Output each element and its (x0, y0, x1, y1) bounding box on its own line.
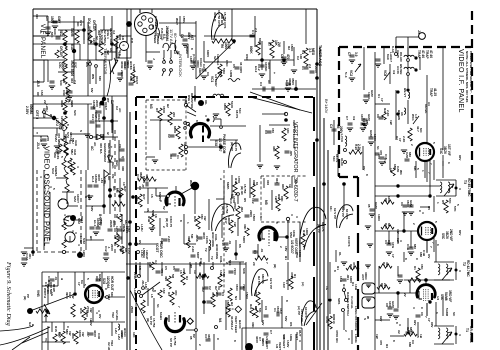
svg-text:180V: 180V (85, 310, 89, 317)
svg-text:6: 6 (436, 244, 440, 246)
svg-text:1/2W: 1/2W (229, 70, 233, 77)
svg-text:6CGT: 6CGT (155, 243, 159, 253)
svg-text:3: 3 (295, 216, 299, 218)
svg-text:J3-4: J3-4 (36, 142, 40, 149)
svg-text:(B): (B) (273, 264, 277, 268)
svg-text:MC: MC (110, 292, 114, 298)
svg-text:200V: 200V (120, 70, 124, 78)
svg-text:1250GA: 1250GA (216, 54, 220, 66)
svg-text:100E: 100E (292, 230, 296, 237)
svg-text:1W: 1W (375, 334, 379, 339)
svg-text:IZ: IZ (106, 132, 110, 135)
svg-text:1/2W: 1/2W (132, 64, 136, 71)
svg-text:SAN6: SAN6 (70, 28, 74, 37)
svg-text:C5: C5 (172, 266, 176, 270)
svg-text:680: 680 (419, 252, 423, 257)
svg-text:SW1: SW1 (337, 298, 341, 305)
svg-text:GN: GN (45, 16, 49, 21)
svg-text:(B) PP: (B) PP (230, 142, 234, 151)
svg-text:NOTE: ALL SYMBOL NOS. ON THIS: NOTE: ALL SYMBOL NOS. ON THIS (465, 51, 469, 102)
svg-text:T1: T1 (465, 328, 469, 332)
svg-text:3.9: 3.9 (352, 116, 356, 121)
svg-text:VC8: VC8 (383, 70, 387, 76)
svg-text:3.4: 3.4 (112, 30, 116, 35)
svg-text:5M: 5M (190, 234, 194, 239)
svg-text:33K: 33K (251, 322, 255, 328)
svg-text:OSC: OSC (225, 60, 229, 67)
svg-text:OUT: OUT (298, 330, 302, 337)
svg-text:C2: C2 (208, 286, 212, 290)
svg-text:+: + (272, 72, 276, 74)
svg-text:ON: ON (35, 14, 39, 19)
svg-text:600V: 600V (206, 50, 210, 58)
svg-text:8: 8 (392, 340, 396, 342)
svg-text:.003: .003 (169, 153, 173, 159)
svg-text:6AW8A: 6AW8A (54, 166, 58, 177)
svg-text:C9: C9 (253, 250, 257, 254)
svg-text:5: 5 (46, 174, 50, 176)
svg-text:2: 2 (279, 246, 283, 248)
svg-text:.001: .001 (28, 253, 32, 259)
svg-text:801W: 801W (52, 284, 56, 292)
svg-text:R1: R1 (293, 274, 297, 278)
svg-text:60 CPS: 60 CPS (345, 209, 349, 219)
svg-text:600MA: 600MA (29, 104, 33, 115)
svg-text:120MF: 120MF (115, 226, 119, 236)
svg-text:HOR RING: HOR RING (215, 244, 219, 260)
svg-text:C2: C2 (167, 134, 171, 138)
svg-text:COIL: COIL (219, 256, 223, 263)
svg-text:BN-VT: BN-VT (403, 88, 407, 97)
svg-text:MMP.: MMP. (226, 182, 230, 190)
svg-text:R1B: R1B (147, 216, 151, 223)
svg-text:R5: R5 (243, 198, 247, 202)
svg-text:1S0: 1S0 (162, 288, 166, 294)
svg-text:2.2K: 2.2K (121, 247, 125, 254)
svg-text:W: W (366, 316, 370, 319)
svg-text:60∼: 60∼ (173, 33, 178, 41)
svg-text:8S: 8S (238, 244, 242, 248)
svg-text:L7CO: L7CO (340, 134, 344, 143)
svg-text:R2 5%: R2 5% (257, 276, 261, 285)
svg-text:680: 680 (413, 244, 417, 249)
svg-text:WAV: WAV (189, 180, 193, 188)
svg-text:R1: R1 (413, 266, 417, 270)
svg-text:1000: 1000 (373, 134, 377, 141)
svg-text:(1½HOT: (1½HOT (192, 54, 196, 66)
svg-text:680: 680 (408, 342, 412, 347)
svg-text:BN: BN (89, 236, 93, 240)
svg-text:4: 4 (39, 176, 43, 178)
svg-text:33 400V: 33 400V (239, 62, 243, 73)
svg-text:1500: 1500 (235, 284, 239, 291)
svg-text:GMV: GMV (374, 202, 378, 210)
svg-text:J7: J7 (141, 184, 145, 188)
svg-text:GMV: GMV (57, 16, 61, 24)
svg-text:8: 8 (333, 270, 337, 272)
svg-text:C7: C7 (345, 116, 349, 120)
svg-text:1000: 1000 (65, 88, 69, 95)
svg-text:1R4: 1R4 (126, 60, 130, 66)
svg-text:GERMANIUM: GERMANIUM (103, 143, 107, 162)
svg-text:YR2: YR2 (111, 312, 115, 318)
svg-text:1W: 1W (389, 120, 393, 125)
svg-text:500V: 500V (242, 236, 246, 244)
svg-text:90K: 90K (281, 184, 285, 190)
svg-text:C7: C7 (389, 58, 393, 62)
svg-text:PP: PP (26, 294, 30, 298)
svg-text:OR-GR: OR-GR (59, 46, 63, 57)
svg-text:CN: CN (111, 174, 115, 178)
svg-text:T2: T2 (210, 256, 214, 260)
svg-text:W: W (49, 114, 53, 117)
svg-text:.01: .01 (54, 276, 58, 281)
svg-text:X2: X2 (397, 330, 401, 334)
svg-text:L10U: L10U (133, 288, 137, 296)
svg-text:5AM8: 5AM8 (444, 292, 448, 301)
svg-text:INTERLOCK: INTERLOCK (178, 54, 183, 77)
svg-text:1KB: 1KB (339, 276, 343, 283)
svg-text:REC.: REC. (111, 162, 115, 169)
svg-text:C15: C15 (383, 158, 387, 164)
svg-text:.01: .01 (260, 248, 264, 253)
svg-text:RD 45.75MC: RD 45.75MC (467, 178, 471, 197)
svg-text:MEG: MEG (311, 48, 315, 56)
svg-text:1KB: 1KB (354, 284, 358, 291)
svg-text:10%: 10% (391, 242, 395, 248)
svg-text:E2: E2 (99, 134, 103, 138)
svg-text:6: 6 (447, 162, 451, 164)
svg-text:N2: N2 (230, 194, 234, 198)
svg-text:1Y: 1Y (391, 254, 395, 258)
svg-text:15,750: 15,750 (225, 204, 229, 214)
svg-text:3S: 3S (146, 208, 150, 212)
svg-text:7: 7 (267, 226, 271, 228)
svg-text:8: 8 (66, 124, 70, 126)
svg-text:2: 2 (344, 330, 348, 332)
svg-text:L2U: L2U (114, 328, 118, 335)
svg-text:270: 270 (46, 136, 50, 141)
svg-text:330: 330 (385, 262, 389, 267)
svg-text:470: 470 (379, 340, 383, 345)
svg-text:.002: .002 (240, 206, 244, 212)
svg-text:R1: R1 (155, 108, 159, 112)
svg-text:1Y: 1Y (380, 98, 384, 102)
svg-text:Y1: Y1 (44, 338, 48, 342)
svg-text:C4: C4 (259, 82, 263, 86)
svg-text:1ST VIF: 1ST VIF (447, 144, 451, 156)
svg-text:VERT INTEGRATOR: VERT INTEGRATOR (292, 120, 296, 149)
svg-text:ONLY: ONLY (135, 76, 139, 84)
svg-text:2ND VIF: 2ND VIF (449, 229, 453, 241)
svg-text:.0056: .0056 (195, 234, 199, 242)
svg-text:680: 680 (409, 327, 413, 332)
svg-text:C1: C1 (176, 155, 180, 159)
svg-text:R2D: R2D (193, 216, 197, 223)
svg-text:68 PS: 68 PS (335, 154, 339, 162)
svg-text:C8: C8 (376, 114, 380, 118)
svg-text:50Ω: 50Ω (222, 68, 226, 74)
svg-text:R16: R16 (79, 308, 83, 314)
svg-text:3: 3 (74, 232, 78, 234)
svg-text:S1C: S1C (118, 50, 122, 57)
svg-text:6AB4: 6AB4 (159, 312, 163, 320)
svg-text:E3-2: E3-2 (254, 66, 258, 73)
svg-text:H: H (60, 278, 64, 280)
svg-text:R27: R27 (123, 186, 127, 192)
svg-text:T2: T2 (462, 262, 466, 266)
svg-text:680K: 680K (173, 126, 177, 134)
svg-text:60V PP: 60V PP (341, 207, 345, 217)
svg-text:C9: C9 (264, 306, 268, 310)
svg-text:60 CPS: 60 CPS (347, 236, 351, 247)
svg-text:(A): (A) (301, 282, 305, 286)
svg-text:5AM8: 5AM8 (445, 308, 449, 316)
svg-text:47K: 47K (174, 290, 178, 296)
svg-text:OC: OC (211, 262, 215, 267)
svg-text:4: 4 (77, 244, 81, 246)
svg-text:TRAP: TRAP (429, 88, 433, 98)
svg-text:1G: 1G (325, 286, 329, 291)
svg-text:YR2: YR2 (110, 340, 114, 346)
svg-text:3AU: 3AU (73, 149, 77, 155)
svg-text:W4: W4 (399, 170, 403, 175)
svg-text:WHT: WHT (175, 18, 179, 25)
svg-text:1S: 1S (150, 194, 154, 198)
svg-text:VERT FEED: VERT FEED (234, 316, 238, 334)
svg-text:470: 470 (160, 268, 164, 273)
svg-text:15K: 15K (420, 264, 424, 270)
svg-text:3.9: 3.9 (392, 70, 396, 75)
svg-text:R6: R6 (220, 44, 224, 48)
svg-text:X4: X4 (427, 102, 431, 106)
svg-text:XIC: XIC (53, 30, 57, 36)
svg-text:1G: 1G (50, 292, 54, 297)
svg-text:WN: WN (91, 74, 95, 79)
svg-text:D1: D1 (342, 284, 346, 288)
svg-text:170K: 170K (237, 176, 241, 184)
svg-text:180K: 180K (223, 103, 227, 111)
svg-text:7: 7 (429, 246, 433, 248)
svg-text:60CPS: 60CPS (321, 222, 325, 232)
svg-text:3: 3 (60, 198, 64, 200)
svg-text:C3U: C3U (97, 333, 101, 339)
svg-text:8: 8 (365, 174, 369, 176)
svg-text:47.40: 47.40 (421, 50, 425, 58)
svg-text:MN: MN (98, 76, 102, 81)
svg-text:60∼: 60∼ (329, 206, 333, 212)
svg-text:390: 390 (164, 276, 168, 281)
svg-text:8: 8 (233, 340, 237, 342)
svg-text:Figure 9. Schematic Diag: Figure 9. Schematic Diag (5, 261, 12, 326)
svg-text:S4Q: S4Q (184, 97, 188, 104)
svg-text:15,750: 15,750 (173, 336, 177, 346)
svg-text:X1C: X1C (70, 44, 74, 51)
svg-text:J.1: J.1 (154, 22, 158, 27)
svg-text:S5C: S5C (441, 233, 445, 240)
svg-text:OC: OC (109, 48, 113, 53)
svg-text:1/2 6CG7: 1/2 6CG7 (290, 240, 294, 254)
svg-text:5V: 5V (162, 206, 166, 210)
svg-text:100CT: 100CT (76, 194, 80, 203)
svg-text:30-6503-2: 30-6503-2 (230, 316, 234, 330)
svg-text:C7: C7 (347, 52, 351, 56)
svg-text:C9: C9 (400, 202, 404, 206)
svg-text:1C2: 1C2 (251, 198, 255, 204)
svg-text:33K: 33K (272, 146, 276, 152)
svg-text:BACK: BACK (238, 320, 242, 329)
svg-text:0.5/0.75: 0.5/0.75 (169, 216, 173, 227)
svg-text:N5: N5 (294, 180, 298, 184)
svg-text:3RD IF: 3RD IF (213, 12, 217, 22)
svg-text:L26U: L26U (45, 104, 49, 112)
svg-text:VERT: VERT (278, 342, 282, 350)
svg-text:470: 470 (286, 54, 290, 60)
svg-text:400V: 400V (145, 174, 149, 181)
svg-text:155V: 155V (182, 16, 186, 24)
svg-text:C2B: C2B (160, 238, 164, 245)
svg-text:L13U: L13U (144, 282, 148, 290)
svg-text:OR-GR: OR-GR (92, 20, 96, 31)
svg-text:7200: 7200 (233, 268, 237, 275)
svg-text:J3-5: J3-5 (36, 80, 40, 87)
svg-text:C1: C1 (301, 66, 305, 70)
svg-text:200V: 200V (110, 244, 114, 251)
svg-text:400V: 400V (261, 339, 265, 347)
svg-text:150K: 150K (162, 106, 166, 114)
svg-text:R5: R5 (441, 200, 445, 204)
svg-text:51C: 51C (59, 30, 63, 37)
svg-text:1Y: 1Y (398, 138, 402, 142)
svg-text:C3: C3 (264, 130, 268, 134)
svg-text:RD 42.7MC: RD 42.7MC (466, 260, 470, 277)
svg-text:N5: N5 (264, 200, 268, 205)
svg-text:9: 9 (415, 258, 419, 260)
svg-text:8: 8 (179, 220, 183, 222)
svg-text:LONG: LONG (354, 334, 358, 343)
svg-text:AC: AC (90, 146, 94, 151)
svg-text:X6: X6 (400, 112, 404, 116)
svg-text:2V: 2V (403, 293, 407, 297)
svg-text:15,750: 15,750 (152, 318, 156, 328)
svg-text:300V: 300V (99, 218, 103, 225)
svg-text:R27: R27 (142, 194, 146, 200)
svg-text:1500: 1500 (252, 214, 256, 221)
svg-text:R21: R21 (249, 304, 253, 310)
svg-text:PHASE COM: PHASE COM (222, 134, 226, 154)
svg-text:.01: .01 (228, 240, 232, 245)
svg-text:12BH7: 12BH7 (145, 250, 149, 260)
svg-text:470K: 470K (352, 262, 356, 270)
svg-text:004: 004 (275, 178, 279, 183)
svg-text:41.25: 41.25 (433, 88, 437, 96)
svg-text:2.2K: 2.2K (386, 110, 390, 117)
svg-text:1W: 1W (203, 216, 207, 221)
svg-text:2: 2 (162, 226, 166, 228)
svg-text:470: 470 (379, 150, 383, 155)
svg-text:R8B: R8B (47, 280, 51, 287)
svg-text:200: 200 (172, 112, 176, 117)
svg-text:C20: C20 (148, 262, 152, 268)
svg-text:C4U: C4U (39, 136, 43, 143)
svg-text:3: 3 (458, 270, 462, 272)
svg-text:OL: OL (338, 252, 342, 256)
svg-text:5: 5 (456, 204, 460, 206)
svg-text:2.35V: 2.35V (25, 106, 29, 115)
svg-text:1200: 1200 (82, 250, 86, 257)
svg-text:PANEL USE THE SUFFIX “C”.: PANEL USE THE SUFFIX “C”. (469, 51, 473, 94)
svg-text:50K: 50K (228, 260, 232, 266)
svg-text:B+140V: B+140V (324, 99, 329, 114)
svg-text:4MV: 4MV (87, 194, 91, 201)
svg-text:1/2 9BR7: 1/2 9BR7 (214, 74, 218, 87)
svg-text:1: 1 (421, 170, 425, 172)
svg-text:68: 68 (387, 223, 391, 227)
svg-text:1W: 1W (81, 332, 85, 337)
svg-text:GR 43.6MC: GR 43.6MC (469, 326, 473, 344)
svg-text:47.40: 47.40 (429, 50, 433, 58)
svg-text:470K: 470K (325, 316, 329, 324)
svg-text:300V: 300V (125, 226, 129, 234)
svg-text:1000: 1000 (377, 214, 381, 221)
svg-text:300Ω: 300Ω (364, 272, 368, 280)
svg-text:680: 680 (408, 152, 412, 157)
svg-text:57K: 57K (448, 198, 452, 204)
svg-text:80V: 80V (458, 230, 462, 235)
svg-text:L8: L8 (150, 294, 154, 298)
svg-text:S0K: S0K (242, 268, 246, 275)
svg-text:68CPS: 68CPS (261, 274, 265, 284)
svg-text:3: 3 (398, 324, 402, 326)
svg-text:+: + (109, 146, 113, 148)
svg-text:3RD VIF: 3RD VIF (448, 290, 452, 302)
svg-text:0.5/0.75: 0.5/0.75 (234, 140, 238, 151)
svg-text:R3: R3 (167, 292, 171, 296)
svg-text:1000: 1000 (387, 196, 391, 203)
svg-text:.005: .005 (289, 150, 293, 156)
svg-text:C7: C7 (269, 330, 273, 334)
svg-text:S1: S1 (156, 304, 160, 308)
svg-text:9: 9 (418, 210, 422, 212)
svg-text:7.2: 7.2 (73, 80, 77, 85)
svg-text:B1: B1 (284, 256, 288, 260)
svg-text:1S4: 1S4 (40, 90, 44, 96)
svg-text:60 CPS: 60 CPS (304, 307, 308, 318)
svg-text:8: 8 (404, 258, 408, 260)
svg-text:5M: 5M (171, 274, 175, 279)
svg-text:510K: 510K (230, 101, 234, 109)
svg-text:GMV: GMV (391, 301, 395, 308)
svg-text:5: 5 (66, 216, 70, 218)
svg-text:05: 05 (367, 204, 371, 208)
svg-text:LONG DISTANCE: LONG DISTANCE (354, 306, 358, 331)
svg-text:X4 05: X4 05 (396, 50, 400, 58)
svg-text:N4: N4 (218, 318, 222, 322)
svg-text:3.4: 3.4 (154, 260, 158, 265)
svg-text:HOLD: HOLD (123, 328, 127, 337)
svg-text:C5: C5 (232, 64, 236, 68)
svg-text:400V: 400V (93, 330, 97, 337)
svg-text:B2: B2 (230, 302, 234, 306)
svg-text:1000: 1000 (61, 62, 65, 69)
svg-text:L13U: L13U (140, 224, 144, 232)
svg-text:2.2: 2.2 (254, 28, 258, 33)
svg-text:2.2: 2.2 (308, 64, 312, 69)
svg-text:OK: OK (36, 92, 40, 97)
svg-text:90V: 90V (458, 155, 462, 160)
svg-text:AL: AL (39, 30, 43, 34)
svg-text:15,750: 15,750 (243, 184, 247, 194)
